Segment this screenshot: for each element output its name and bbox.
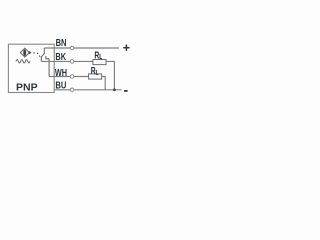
resistor RL2 body (on WH) bbox=[89, 74, 102, 79]
terminal circle on WH bbox=[70, 75, 74, 79]
svg-text:BN: BN bbox=[56, 38, 67, 49]
svg-text:R: R bbox=[91, 66, 96, 77]
wire RL2 to bus bbox=[102, 77, 106, 90]
switch lever bbox=[41, 54, 44, 58]
switch common post bbox=[43, 48, 45, 54]
resistor RL1 body (on BK) bbox=[93, 60, 106, 65]
svg-text:PNP: PNP bbox=[16, 83, 38, 94]
junction dot on BU bbox=[113, 88, 116, 91]
oscillator squiggle bbox=[16, 60, 30, 63]
actuation dotted line bbox=[33, 52, 34, 53]
wire RL1 to bus bbox=[106, 61, 114, 89]
sensor enclosure box bbox=[8, 44, 54, 92]
svg-text:BK: BK bbox=[55, 52, 66, 63]
terminal circle on BN bbox=[70, 46, 74, 50]
wire WH (white output) bbox=[49, 76, 89, 78]
sensor lens (filled) bbox=[23, 49, 26, 56]
contact post to BK bbox=[40, 56, 42, 61]
wire BN (brown, +V) bbox=[44, 47, 119, 49]
resistor RL2 subscript L bbox=[96, 70, 98, 75]
wire BK (black output) bbox=[41, 60, 93, 62]
terminal circle on BK bbox=[70, 60, 74, 64]
svg-text:R: R bbox=[94, 51, 99, 62]
svg-text:BU: BU bbox=[55, 81, 66, 92]
proximity sensor head (diamond) bbox=[20, 48, 29, 57]
svg-text:WH: WH bbox=[55, 68, 67, 79]
terminal circle on BU bbox=[70, 88, 74, 92]
internal bus to WH bbox=[48, 59, 50, 77]
sensing arrow bbox=[29, 51, 32, 54]
wire BU (blue, 0V) bbox=[54, 89, 121, 91]
plus terminal bbox=[123, 47, 129, 49]
minus terminal bbox=[124, 90, 128, 92]
contact post to WH bbox=[46, 56, 49, 59]
resistor RL1 subscript L bbox=[100, 54, 102, 59]
